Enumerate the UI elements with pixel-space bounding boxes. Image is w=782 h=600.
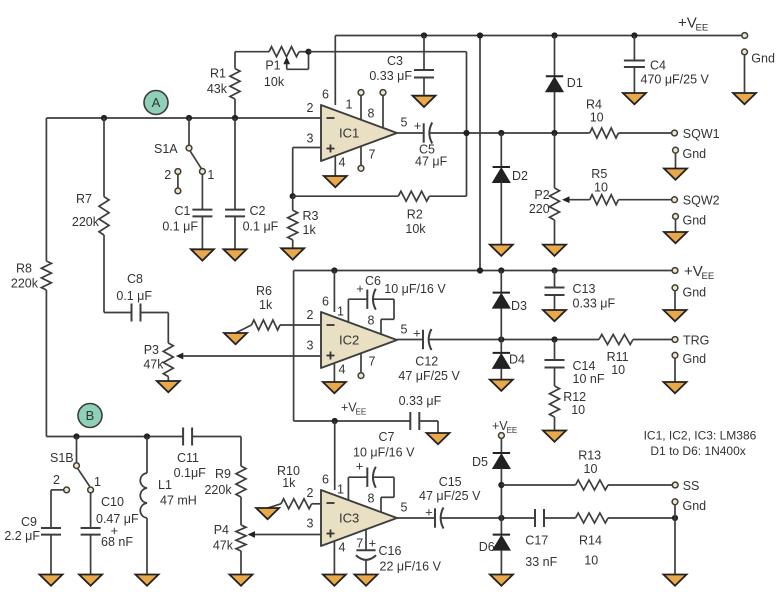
junction — [463, 130, 469, 136]
wire P2 top — [554, 133, 556, 188]
svg-text:+: + — [369, 536, 377, 551]
ground — [664, 310, 687, 321]
wire R2 right lead — [429, 133, 466, 196]
wire R3 bottom lead — [292, 240, 294, 248]
svg-text:EE: EE — [696, 23, 709, 34]
svg-text:R14: R14 — [579, 534, 602, 548]
junction — [498, 336, 504, 342]
wire gnd rail2 — [674, 291, 676, 310]
wire C13 bottom — [554, 295, 556, 310]
terminal +VEE — [742, 33, 748, 39]
ground — [136, 575, 159, 586]
junction — [101, 115, 107, 121]
ground — [40, 575, 63, 586]
label D4 — [509, 353, 525, 367]
junction — [551, 130, 557, 136]
svg-text:S1B: S1B — [50, 451, 74, 465]
wire IC3 pin3 to P4 wiper — [255, 534, 321, 536]
svg-text:C10: C10 — [101, 495, 124, 509]
net Gnd — [683, 147, 707, 161]
wire R1 top lead — [234, 52, 236, 69]
wire C13 top — [554, 271, 556, 288]
svg-text:2: 2 — [53, 473, 60, 487]
wire D3 top — [500, 271, 502, 293]
resistor R6 — [236, 284, 281, 333]
svg-text:IC2: IC2 — [339, 333, 359, 348]
svg-text:1k: 1k — [282, 476, 296, 490]
arrow to P4 — [248, 531, 256, 538]
wire S1B-1 to C10 — [90, 493, 92, 528]
wire C16 bottom — [365, 561, 367, 575]
capacitor C16 — [356, 529, 442, 573]
ground — [664, 169, 687, 180]
svg-text:S1A: S1A — [154, 142, 178, 156]
resistor R2 — [398, 191, 429, 236]
net Gnd — [683, 499, 707, 513]
svg-text:10 μF/16 V: 10 μF/16 V — [353, 446, 415, 460]
svg-text:47 μF/25 V: 47 μF/25 V — [398, 369, 460, 383]
svg-text:1: 1 — [207, 168, 214, 182]
potentiometer P4 — [213, 523, 246, 553]
svg-text:0.1 μF: 0.1 μF — [243, 220, 279, 234]
svg-text:R13: R13 — [578, 449, 601, 463]
wire C14 to R12 — [554, 368, 556, 387]
capacitor C10 — [81, 495, 139, 549]
ground — [224, 249, 247, 260]
wire R2 left lead — [293, 195, 399, 197]
svg-text:1: 1 — [346, 98, 353, 112]
wire IC2 out — [397, 339, 423, 341]
wire IC3 pin6 — [334, 421, 336, 490]
svg-text:R5: R5 — [591, 167, 607, 181]
terminal TRG — [672, 337, 678, 343]
capacitor C12 — [398, 325, 460, 383]
wire C17 to R14 — [544, 517, 576, 519]
wire S1B common — [76, 437, 78, 463]
ground — [427, 433, 450, 444]
ground — [490, 575, 513, 586]
svg-text:47 μF: 47 μF — [415, 155, 448, 169]
svg-text:D1: D1 — [567, 76, 583, 90]
wire IC2 pin4 — [333, 363, 335, 382]
svg-text:P4: P4 — [214, 523, 229, 537]
wire P1 right lead — [299, 51, 309, 53]
svg-text:6: 6 — [322, 295, 329, 309]
svg-text:D1 to D6: 1N400x: D1 to D6: 1N400x — [650, 444, 745, 458]
wire IC1 pin6 to rail — [334, 36, 336, 106]
svg-text:B: B — [86, 408, 95, 423]
net +VEE — [678, 15, 708, 34]
capacitor C14 — [545, 359, 605, 386]
ground — [191, 249, 214, 260]
resistor R8 — [11, 261, 52, 291]
svg-text:IC1, IC2, IC3: LM386: IC1, IC2, IC3: LM386 — [644, 428, 757, 442]
junction — [290, 193, 296, 199]
svg-text:2: 2 — [307, 101, 314, 115]
resistor R3 — [288, 209, 319, 240]
svg-text:P1: P1 — [265, 58, 280, 72]
op-amp IC3 — [307, 473, 408, 555]
svg-text:0.1μF: 0.1μF — [174, 466, 207, 480]
svg-text:68 nF: 68 nF — [101, 535, 133, 549]
junction — [551, 32, 557, 38]
svg-text:+: + — [414, 118, 422, 133]
pin 8 IC1 — [380, 90, 386, 128]
svg-text:C12: C12 — [415, 355, 438, 369]
wire R7 to C8 — [104, 312, 132, 314]
ground — [256, 508, 279, 519]
svg-text:C16: C16 — [379, 544, 402, 558]
wire R9 to P4 — [240, 497, 242, 525]
switch S1A — [154, 142, 214, 194]
svg-text:47k: 47k — [143, 358, 164, 372]
svg-text:C2: C2 — [250, 204, 266, 218]
svg-text:P3: P3 — [144, 343, 159, 357]
svg-text:8: 8 — [368, 314, 375, 328]
svg-text:Gnd: Gnd — [683, 147, 707, 161]
wire C11 to R9 — [192, 437, 241, 467]
svg-text:0.1 μF: 0.1 μF — [162, 220, 198, 234]
svg-text:C17: C17 — [525, 534, 548, 548]
resistor R7 — [72, 192, 109, 235]
ground — [490, 245, 513, 256]
terminal SS — [672, 482, 678, 488]
wire C8 to P3 — [141, 313, 169, 344]
net Gnd — [683, 286, 707, 300]
ground — [224, 333, 247, 344]
svg-text:Gnd: Gnd — [683, 286, 707, 300]
ground — [733, 93, 756, 104]
inductor L1 — [140, 473, 197, 518]
svg-text:C1: C1 — [175, 204, 191, 218]
svg-text:P2: P2 — [534, 188, 549, 202]
junction — [477, 267, 483, 273]
wire C10 bottom — [90, 535, 92, 575]
ground — [355, 575, 378, 586]
capacitor C8 — [116, 272, 152, 322]
wire gnd SQW2 — [675, 220, 677, 232]
wire R12 bottom — [554, 417, 556, 431]
wire C4 top — [633, 36, 635, 61]
wire D2 bottom — [500, 183, 502, 245]
svg-text:33 nF: 33 nF — [525, 555, 557, 569]
svg-text:R9: R9 — [215, 467, 231, 481]
svg-text:5: 5 — [401, 116, 408, 130]
svg-text:5: 5 — [401, 323, 408, 337]
ground — [664, 575, 687, 586]
wire node B row — [46, 436, 183, 438]
junction — [498, 515, 504, 521]
op-amp IC2 — [307, 295, 408, 377]
junction — [332, 418, 338, 424]
wire +VEE top rail — [335, 35, 741, 37]
svg-text:Gnd: Gnd — [683, 499, 707, 513]
pin 1 IC1 — [358, 90, 364, 120]
svg-text:+: + — [413, 325, 421, 340]
svg-text:2: 2 — [164, 168, 171, 182]
svg-text:470 μF/25 V: 470 μF/25 V — [641, 73, 710, 87]
wire R3 top lead — [292, 196, 294, 210]
junction — [631, 32, 637, 38]
wire R11 to TRG — [633, 339, 672, 341]
junction — [331, 267, 337, 273]
svg-text:4: 4 — [339, 541, 346, 555]
net SQW1 — [683, 127, 720, 141]
capacitor C15 — [419, 475, 481, 529]
ground — [79, 575, 102, 586]
wire R8 top lead — [45, 118, 47, 261]
node A — [144, 91, 168, 115]
svg-text:+: + — [425, 505, 433, 520]
terminal Gnd rail2 — [672, 285, 678, 291]
svg-text:C9: C9 — [21, 515, 37, 529]
svg-text:220: 220 — [529, 202, 550, 216]
wire C3 top — [423, 36, 425, 71]
capacitor C1 — [162, 204, 212, 233]
ground — [543, 310, 566, 321]
wire IC1 pin3 — [293, 148, 321, 197]
svg-text:C15: C15 — [439, 475, 462, 489]
junction — [305, 49, 311, 55]
wire R14 to gnd node — [608, 517, 675, 519]
wire +VEE rail 3 — [294, 420, 411, 422]
svg-text:C7: C7 — [379, 430, 395, 444]
svg-text:7: 7 — [369, 148, 376, 162]
svg-text:47 μF/25 V: 47 μF/25 V — [419, 489, 481, 503]
svg-text:1: 1 — [337, 483, 344, 497]
svg-text:3: 3 — [307, 132, 314, 146]
svg-text:47k: 47k — [213, 539, 234, 553]
ground — [323, 382, 346, 393]
junction — [73, 433, 79, 439]
svg-text:C3: C3 — [387, 54, 403, 68]
capacitor C2 — [225, 204, 279, 233]
wire P2 bottom — [554, 220, 556, 245]
svg-text:+V: +V — [678, 15, 697, 32]
svg-text:0.1 μF: 0.1 μF — [116, 289, 152, 303]
svg-text:R8: R8 — [16, 261, 32, 275]
svg-text:0.33 μF: 0.33 μF — [573, 296, 616, 310]
svg-text:6: 6 — [322, 473, 329, 487]
wire D3 bottom — [500, 308, 502, 339]
diode D6 — [493, 535, 510, 551]
junction — [477, 32, 483, 38]
capacitor C17 — [525, 509, 557, 569]
net Gnd — [683, 352, 707, 366]
svg-text:TRG: TRG — [683, 333, 709, 347]
wire C2 bottom — [234, 216, 236, 249]
net +VEE 2 — [684, 263, 714, 282]
terminal Gnd SS — [672, 499, 678, 505]
ground — [323, 575, 346, 586]
wire D2 top — [500, 133, 502, 167]
svg-text:47 mH: 47 mH — [160, 494, 197, 508]
wire P1 to output node — [309, 52, 467, 133]
potentiometer P1 — [264, 47, 309, 89]
svg-text:+: + — [356, 281, 364, 296]
switch S1B — [50, 451, 101, 493]
svg-text:C8: C8 — [127, 272, 143, 286]
terminal SQW2 — [672, 197, 678, 203]
svg-text:IC3: IC3 — [339, 511, 359, 526]
diode D1 — [546, 76, 563, 92]
svg-text:2.2 μF: 2.2 μF — [4, 529, 40, 543]
svg-text:6: 6 — [322, 88, 329, 102]
node B — [78, 404, 102, 428]
resistor R12 — [550, 386, 587, 417]
wire IC3 pin4 — [333, 541, 335, 574]
wire rail2 down to rail3 — [293, 271, 295, 422]
ground — [664, 232, 687, 243]
svg-text:C6: C6 — [365, 274, 381, 288]
svg-text:L1: L1 — [158, 478, 172, 492]
svg-text:D6: D6 — [479, 540, 495, 554]
capacitor C4 — [624, 59, 710, 87]
capacitor C7 — [348, 430, 415, 512]
svg-text:R12: R12 — [563, 390, 586, 404]
svg-text:1k: 1k — [259, 298, 273, 312]
junction — [498, 130, 504, 136]
wire gnd SS — [674, 505, 676, 518]
terminal Gnd SQW1 — [673, 147, 679, 153]
diode D3 — [493, 293, 510, 309]
ground — [664, 382, 687, 393]
junction — [421, 32, 427, 38]
terminal +VEE 2 — [672, 268, 678, 274]
note parts list — [644, 428, 757, 458]
svg-text:1k: 1k — [303, 223, 317, 237]
wire R7 top lead — [103, 118, 105, 197]
capacitor C9 — [4, 515, 61, 543]
resistor R4 — [586, 97, 618, 138]
svg-text:10: 10 — [590, 111, 604, 125]
svg-text:7: 7 — [369, 355, 376, 369]
wire node A row — [46, 117, 321, 119]
net Gnd — [751, 52, 775, 66]
net Gnd — [683, 213, 707, 227]
wire C14 top — [554, 340, 556, 361]
wire C5 to SQW1 node — [430, 132, 590, 134]
svg-text:+: + — [356, 459, 364, 474]
wire S1B-2 to C9 — [51, 490, 64, 528]
svg-text:D3: D3 — [511, 299, 527, 313]
wire +VEE feed — [479, 36, 481, 271]
wire R6 to IC2 pin2 — [280, 324, 321, 326]
svg-text:C4: C4 — [650, 59, 666, 73]
capacitor C5 — [414, 118, 448, 169]
svg-text:R4: R4 — [586, 97, 602, 111]
svg-text:43k: 43k — [207, 82, 228, 96]
wire SS row left — [501, 484, 575, 486]
svg-text:R1: R1 — [210, 67, 226, 81]
diode D4 — [493, 353, 510, 369]
wire L1 top — [146, 437, 148, 474]
svg-text:R2: R2 — [407, 208, 423, 222]
wire IC3 out — [397, 517, 435, 519]
wire D5 bottom — [500, 469, 502, 519]
wire bypass to gnd — [419, 421, 438, 433]
diode D2 — [493, 167, 510, 183]
wire Gnd to ground — [744, 55, 746, 93]
net SS — [683, 479, 700, 493]
junction — [498, 267, 504, 273]
svg-text:IC1: IC1 — [339, 126, 359, 141]
svg-text:220k: 220k — [72, 215, 100, 229]
svg-text:EE: EE — [702, 271, 715, 282]
wire R10 to IC3 pin2 — [312, 503, 321, 505]
resistor R11 — [599, 335, 633, 377]
wire L1 bottom — [146, 518, 148, 575]
wire S1A-1 to C1 — [201, 174, 203, 209]
svg-text:0.33 μF: 0.33 μF — [399, 394, 442, 408]
net +VEE 3 — [341, 401, 366, 417]
ground — [543, 245, 566, 256]
ground — [230, 575, 253, 586]
svg-text:Gnd: Gnd — [683, 352, 707, 366]
wire C4 bottom — [633, 67, 635, 93]
wire D6 bottom — [500, 550, 502, 574]
wire gnd SQW1 — [675, 153, 677, 168]
wire D6 top — [500, 518, 502, 535]
svg-text:C14: C14 — [573, 359, 596, 373]
terminal Gnd SQW2 — [673, 214, 679, 220]
wire R4 to SQW1 — [618, 132, 671, 134]
wire IC1 pin4 — [334, 156, 336, 176]
label D5 — [472, 455, 488, 469]
svg-text:2: 2 — [307, 308, 314, 322]
resistor R9 — [204, 466, 246, 497]
junction — [498, 482, 504, 488]
capacitor C13 — [545, 282, 616, 310]
junction — [144, 433, 150, 439]
svg-text:5: 5 — [401, 501, 408, 515]
capacitor C11 — [174, 428, 207, 481]
svg-text:0.33 μF: 0.33 μF — [369, 69, 412, 83]
wire C2 top — [234, 118, 236, 210]
wire C12 to TRG node — [429, 339, 599, 341]
wire C9 bottom — [50, 535, 52, 575]
svg-text:10: 10 — [611, 363, 625, 377]
svg-text:10: 10 — [584, 553, 598, 567]
ground — [490, 380, 513, 391]
svg-text:10: 10 — [584, 462, 598, 476]
wire D1 bottom — [554, 92, 556, 133]
svg-text:Gnd: Gnd — [751, 52, 775, 66]
wire R1 to P1 — [235, 51, 269, 53]
net TRG — [683, 333, 709, 347]
wire +VEE rail 2 — [294, 270, 672, 272]
svg-text:220k: 220k — [204, 483, 232, 497]
junction — [551, 267, 557, 273]
svg-text:10k: 10k — [405, 222, 426, 236]
svg-text:+V: +V — [684, 263, 703, 280]
svg-text:3: 3 — [307, 517, 314, 531]
ground — [157, 381, 180, 392]
svg-text:8: 8 — [368, 107, 375, 121]
svg-text:D5: D5 — [472, 455, 488, 469]
svg-text:C11: C11 — [177, 451, 199, 465]
svg-text:220k: 220k — [11, 277, 39, 291]
wire R1 bottom lead — [234, 99, 236, 118]
svg-text:22 μF/16 V: 22 μF/16 V — [380, 559, 442, 573]
capacitor 0.33 uF bypass — [399, 394, 442, 430]
svg-text:10: 10 — [594, 180, 608, 194]
net SQW2 — [683, 194, 720, 208]
svg-text:4: 4 — [339, 363, 346, 377]
potentiometer P3 — [143, 343, 183, 377]
svg-text:1: 1 — [337, 305, 344, 319]
svg-text:3: 3 — [307, 339, 314, 353]
